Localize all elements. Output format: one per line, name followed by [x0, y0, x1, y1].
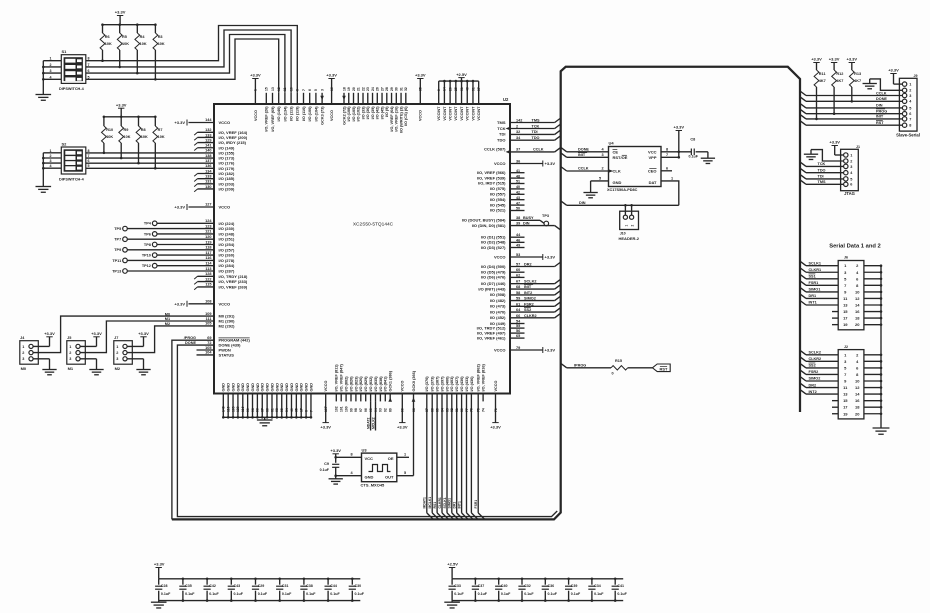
svg-text:7: 7 — [666, 153, 668, 157]
svg-text:+3.3V: +3.3V — [811, 57, 822, 62]
FPGA right pin 79 VCCO +3.3V — [510, 349, 543, 351]
svg-text:R9: R9 — [124, 128, 129, 132]
svg-text:GND: GND — [309, 383, 313, 392]
svg-text:TP6: TP6 — [144, 232, 151, 236]
svg-text:DIPSWITCH-4: DIPSWITCH-4 — [59, 87, 85, 91]
svg-text:5: 5 — [599, 176, 601, 180]
svg-text:5: 5 — [88, 164, 90, 168]
svg-text:TCK: TCK — [532, 124, 540, 128]
svg-text:VCCO: VCCO — [494, 255, 506, 260]
svg-text:SCLK1: SCLK1 — [443, 497, 447, 508]
svg-text:VCCINT: VCCINT — [437, 106, 441, 121]
svg-text:C35: C35 — [185, 584, 192, 588]
svg-text:53: 53 — [516, 253, 520, 257]
svg-text:32: 32 — [516, 130, 520, 134]
svg-text:TP11: TP11 — [112, 259, 121, 263]
pull-up rail +3.3V for S2 resistors — [104, 116, 155, 118]
svg-text:6: 6 — [666, 166, 668, 170]
svg-text:DR1: DR1 — [453, 502, 457, 509]
svg-text:+3.3V: +3.3V — [154, 562, 165, 567]
svg-text:16: 16 — [330, 87, 334, 91]
svg-text:I/O (802): I/O (802) — [345, 376, 349, 392]
PROM U4 XC17S50A-PD8C body — [609, 147, 662, 187]
svg-text:R11: R11 — [819, 72, 826, 76]
svg-text:50: 50 — [516, 207, 520, 211]
svg-text:CLKR1: CLKR1 — [438, 497, 442, 508]
svg-text:1: 1 — [50, 57, 52, 61]
svg-text:76: 76 — [470, 408, 474, 412]
svg-text:21: 21 — [357, 87, 361, 91]
FPGA right pin 37 CCLK to bus — [510, 151, 555, 153]
svg-text:3: 3 — [22, 357, 24, 361]
svg-text:89: 89 — [389, 408, 393, 412]
svg-text:CEO: CEO — [648, 168, 657, 173]
svg-text:0.1uF: 0.1uF — [478, 592, 488, 596]
svg-text:I/O (554): I/O (554) — [490, 197, 506, 202]
svg-text:133: 133 — [205, 174, 211, 178]
svg-text:I/O (427): I/O (427) — [455, 376, 459, 392]
svg-text:116: 116 — [241, 406, 245, 412]
svg-text:TCK: TCK — [497, 126, 505, 131]
svg-text:+3.3V: +3.3V — [674, 125, 685, 130]
svg-text:83: 83 — [445, 408, 449, 412]
svg-text:61: 61 — [516, 302, 520, 306]
svg-text:130: 130 — [205, 185, 211, 189]
svg-text:43: 43 — [516, 196, 520, 200]
svg-text:FSR1: FSR1 — [474, 500, 478, 509]
svg-text:49: 49 — [290, 408, 294, 412]
svg-text:+3.3V: +3.3V — [138, 331, 149, 336]
FPGA left pin 144 VCCO with +3.3V — [189, 122, 215, 124]
svg-text:GND: GND — [261, 383, 265, 392]
FPGA right no-connect stubs 44 46 49 — [510, 236, 525, 238]
svg-text:DIN: DIN — [876, 104, 883, 108]
svg-text:I/O (45): I/O (45) — [380, 106, 384, 120]
ground to Slave-Serial pin2 — [870, 79, 903, 90]
svg-text:69: 69 — [207, 336, 211, 340]
svg-text:I/O (102): I/O (102) — [357, 106, 361, 122]
FPGA right pins TMS TCK TDI TDO to bus — [510, 122, 555, 124]
+3.3V to J4 pin1 — [33, 345, 49, 347]
J6 unconnected left stubs — [832, 311, 838, 313]
svg-text:98: 98 — [354, 408, 358, 412]
svg-text:I/O (387): I/O (387) — [436, 376, 440, 392]
svg-text:SIMO2: SIMO2 — [524, 297, 536, 301]
svg-text:2: 2 — [116, 351, 118, 355]
capacitor C32 0.1uF — [521, 579, 523, 585]
svg-text:60: 60 — [516, 268, 520, 272]
DIP switch S2 DIPSWITCH-4 — [61, 147, 86, 174]
svg-text:U2: U2 — [503, 97, 509, 102]
svg-text:144: 144 — [205, 118, 212, 122]
svg-text:TDI: TDI — [532, 130, 538, 134]
svg-text:4: 4 — [50, 164, 52, 168]
decoupling bank rail +3.3V — [159, 578, 361, 580]
svg-text:TP10: TP10 — [142, 254, 151, 258]
svg-text:MCLK2: MCLK2 — [372, 417, 376, 429]
svg-text:22: 22 — [361, 87, 365, 91]
svg-text:12: 12 — [855, 385, 860, 390]
svg-text:I/O (INIT) (443): I/O (INIT) (443) — [478, 286, 506, 291]
svg-text:39: 39 — [516, 221, 520, 225]
ground for J5 pin3 — [80, 358, 96, 360]
connector J9 Slave-Serial — [899, 78, 917, 131]
svg-text:2: 2 — [69, 351, 71, 355]
svg-text:JTAG: JTAG — [844, 191, 855, 196]
input arrow on GCK2 pin — [342, 96, 346, 100]
svg-text:67: 67 — [516, 280, 520, 284]
svg-text:6: 6 — [909, 112, 911, 116]
svg-text:1: 1 — [404, 453, 406, 457]
svg-text:C40: C40 — [501, 584, 508, 588]
FPGA left pins group1 I/O with stubs — [198, 131, 215, 133]
svg-text:DONE: DONE — [578, 147, 589, 151]
capacitor C33 0.1uF — [451, 579, 453, 585]
svg-text:C33: C33 — [454, 584, 461, 588]
svg-text:1: 1 — [909, 83, 911, 87]
net flag RST — [652, 364, 670, 372]
svg-text:TP5: TP5 — [114, 227, 121, 231]
svg-text:CLKR2: CLKR2 — [809, 357, 822, 361]
svg-text:120: 120 — [236, 406, 240, 412]
svg-text:6: 6 — [850, 183, 852, 187]
svg-text:J2: J2 — [844, 345, 848, 349]
resistor R10 10K — [103, 117, 105, 126]
svg-text:20: 20 — [855, 322, 860, 327]
svg-text:55: 55 — [516, 324, 520, 328]
svg-text:+2.5V: +2.5V — [456, 72, 467, 77]
resistor R8 10K — [138, 117, 140, 126]
FPGA right pin 36 VCCO +3.3V — [510, 163, 543, 165]
svg-text:6: 6 — [88, 159, 90, 163]
svg-text:+3.3V: +3.3V — [545, 348, 556, 353]
+3.3V to JTAG pin1 — [835, 154, 844, 156]
wires from bus to JTAG TCK TDO TDI TMS — [800, 162, 806, 167]
wire DONE from pin 72 down to bottom bus — [177, 345, 557, 516]
svg-text:GCK2 (72): GCK2 (72) — [342, 106, 346, 125]
capacitor C8 0.1uF — [690, 149, 692, 156]
svg-text:51: 51 — [516, 180, 520, 184]
svg-text:I/O (CS) (6): I/O (CS) (6) — [404, 106, 408, 126]
FPGA right pin 39 DIN to bus — [510, 225, 555, 227]
+3.3V to J7 pin1 — [127, 345, 143, 347]
FPGA bottom pin 90 VCCO +3.3V — [401, 394, 403, 423]
svg-text:85: 85 — [435, 408, 439, 412]
connector J1 JTAG — [841, 149, 859, 190]
svg-text:J6: J6 — [844, 256, 848, 260]
svg-text:31: 31 — [399, 87, 403, 91]
svg-text:109: 109 — [205, 312, 211, 316]
svg-text:132: 132 — [205, 128, 211, 132]
svg-text:I/O (370): I/O (370) — [425, 376, 429, 392]
resistor R4 10K — [136, 25, 138, 33]
svg-text:I/O (33): I/O (33) — [361, 106, 365, 120]
svg-text:30: 30 — [395, 87, 399, 91]
svg-text:VCCO: VCCO — [254, 110, 258, 121]
svg-text:4: 4 — [50, 75, 52, 79]
jumper J5 3-pin header — [67, 341, 86, 365]
test points TP4-TP13 — [152, 221, 157, 226]
svg-text:R13: R13 — [854, 72, 861, 76]
svg-text:I/O (820): I/O (820) — [349, 376, 353, 392]
svg-text:I/O, VREF (461): I/O, VREF (461) — [477, 335, 506, 340]
svg-text:79: 79 — [516, 346, 520, 350]
svg-text:28: 28 — [385, 87, 389, 91]
svg-text:13: 13 — [843, 392, 848, 397]
svg-text:I/O (230): I/O (230) — [219, 226, 235, 231]
U3 VCC pin8 wire to +3.3V — [336, 456, 362, 458]
wires from bus to Slave-Serial CCLK DONE DIN /PROG /INIT /RST — [800, 91, 806, 96]
svg-text:FSR2: FSR2 — [809, 370, 819, 374]
svg-text:86: 86 — [265, 408, 269, 412]
svg-text:VCCO: VCCO — [324, 380, 328, 391]
svg-text:40: 40 — [516, 185, 520, 189]
svg-text:14: 14 — [443, 87, 447, 91]
svg-text:111: 111 — [206, 317, 212, 321]
svg-text:25: 25 — [454, 87, 458, 91]
svg-text:C9: C9 — [324, 462, 329, 466]
svg-text:TDI: TDI — [818, 175, 824, 179]
svg-text:8: 8 — [304, 410, 308, 412]
svg-text:HEADER-2: HEADER-2 — [619, 236, 640, 241]
svg-text:FSR1: FSR1 — [809, 281, 819, 285]
svg-text:DR1: DR1 — [809, 294, 817, 298]
svg-text:J7: J7 — [114, 336, 118, 340]
S1 common ground — [42, 61, 44, 95]
svg-text:C42: C42 — [209, 584, 216, 588]
svg-text:117: 117 — [205, 251, 211, 255]
J2 unconnected left stubs — [832, 400, 838, 402]
capacitor C38 0.1uF — [303, 579, 305, 585]
svg-text:+3.3V: +3.3V — [174, 205, 185, 210]
svg-text:0.1uF: 0.1uF — [524, 592, 534, 596]
svg-text:TMS: TMS — [497, 120, 506, 125]
U3 OE pin1 stub — [397, 456, 409, 458]
svg-text:GCK0 (366): GCK0 (366) — [412, 370, 416, 391]
svg-text:14: 14 — [855, 303, 860, 308]
svg-text:I/O (400): I/O (400) — [445, 376, 449, 392]
svg-text:I/O (397): I/O (397) — [440, 376, 444, 392]
svg-text:I/O (119): I/O (119) — [296, 106, 300, 122]
svg-text:109: 109 — [231, 406, 235, 412]
capacitor C35 0.1uF — [182, 579, 184, 585]
svg-text:U3: U3 — [362, 447, 368, 452]
svg-text:86: 86 — [431, 408, 435, 412]
svg-text:TDO: TDO — [532, 136, 540, 140]
svg-text:10K: 10K — [140, 42, 147, 46]
wires from bus to J2 signals — [800, 350, 806, 355]
FPGA top pins group1 — [265, 93, 267, 104]
FPGA right pin 38 BUSY to TP5 — [510, 219, 540, 221]
svg-text:101: 101 — [340, 406, 344, 412]
wires MDAT2 MCLK2 from bottom pins — [370, 401, 372, 430]
svg-text:47: 47 — [516, 201, 520, 205]
svg-text:I/O, VREF (69): I/O, VREF (69) — [271, 106, 275, 132]
svg-text:3: 3 — [69, 357, 71, 361]
svg-text:116: 116 — [205, 256, 211, 260]
svg-text:M2: M2 — [115, 366, 121, 371]
svg-text:C38: C38 — [306, 584, 313, 588]
svg-text:SIMO1: SIMO1 — [448, 498, 452, 509]
svg-text:J5: J5 — [67, 336, 71, 340]
FPGA bottom pins group VREF/IO/GCK1 — [335, 394, 337, 402]
svg-text:4K7: 4K7 — [836, 79, 843, 83]
svg-text:RST: RST — [660, 366, 669, 371]
svg-text:99: 99 — [349, 408, 353, 412]
svg-text:0.1uF: 0.1uF — [617, 592, 627, 596]
FPGA bottom pins VREF 862/816 and VCCO 71 — [477, 394, 479, 513]
J6 right pins to ground bus — [864, 265, 881, 267]
capacitor C31 0.1uF — [279, 579, 281, 585]
oscillator U3 CTS_MXO45 — [362, 453, 397, 482]
svg-text:57: 57 — [477, 87, 481, 91]
svg-text:INT1: INT1 — [457, 501, 461, 508]
svg-text:1: 1 — [254, 89, 258, 91]
svg-text:I/O (DOUT, BUSY) (584): I/O (DOUT, BUSY) (584) — [462, 218, 506, 223]
svg-text:3: 3 — [909, 94, 911, 98]
svg-text:I/O (140): I/O (140) — [277, 106, 281, 122]
ground bus for J6 J2 — [880, 266, 882, 428]
svg-text:I/O (DIN, D0) (581): I/O (DIN, D0) (581) — [472, 223, 506, 228]
svg-text:10K: 10K — [106, 135, 113, 139]
svg-text:4K7: 4K7 — [819, 79, 826, 83]
svg-text:I/O, VREF (566): I/O, VREF (566) — [477, 170, 506, 175]
svg-text:134: 134 — [205, 169, 212, 173]
svg-text:DR2: DR2 — [809, 383, 817, 387]
svg-text:18: 18 — [342, 87, 346, 91]
FPGA top VCCINT pins with +2.5V rail — [439, 80, 479, 82]
wires from S1 to FPGA top pins staircase — [86, 26, 297, 93]
svg-text:I/O (470): I/O (470) — [490, 309, 506, 314]
svg-text:INIT: INIT — [578, 153, 586, 157]
FPGA top pins group2 — [343, 93, 345, 104]
svg-text:VCCINT: VCCINT — [454, 106, 458, 121]
svg-text:55: 55 — [280, 408, 284, 412]
svg-text:0.1uF: 0.1uF — [454, 592, 464, 596]
svg-text:R8: R8 — [141, 128, 146, 132]
svg-text:+3.3V: +3.3V — [174, 301, 185, 306]
svg-text:0.1uF: 0.1uF — [258, 592, 268, 596]
svg-text:C31: C31 — [282, 584, 289, 588]
svg-text:I/O (557): I/O (557) — [490, 192, 506, 197]
svg-text:75: 75 — [477, 408, 481, 412]
capacitor C37 0.1uF — [474, 579, 476, 585]
svg-text:I/O (545): I/O (545) — [490, 202, 506, 207]
svg-text:I/O (257): I/O (257) — [219, 247, 235, 252]
svg-text:51: 51 — [471, 87, 475, 91]
svg-text:13: 13 — [271, 87, 275, 91]
svg-text:7: 7 — [88, 154, 90, 158]
svg-text:0: 0 — [612, 372, 614, 376]
svg-text:I/O (42): I/O (42) — [376, 106, 380, 120]
svg-text:TMS: TMS — [818, 180, 826, 184]
svg-text:68: 68 — [275, 408, 279, 412]
svg-text:68: 68 — [516, 285, 520, 289]
+3.3V to J5 pin1 — [80, 345, 96, 347]
svg-text:32: 32 — [404, 87, 408, 91]
svg-text:113: 113 — [205, 267, 211, 271]
svg-text:19: 19 — [843, 411, 848, 416]
svg-text:+3.3V: +3.3V — [545, 255, 556, 260]
svg-text:I/O, VREF (16): I/O, VREF (16) — [395, 106, 399, 132]
svg-text:I/O (832): I/O (832) — [369, 376, 373, 392]
svg-text:92: 92 — [384, 408, 388, 412]
svg-text:I/O (835): I/O (835) — [374, 376, 378, 392]
svg-text:VCCO: VCCO — [330, 110, 334, 121]
svg-text:54: 54 — [285, 408, 289, 412]
svg-text:98: 98 — [251, 408, 255, 412]
wire /PROG from pin 69 down to bottom bus — [172, 340, 214, 519]
svg-text:DAT: DAT — [649, 180, 657, 185]
svg-text:15: 15 — [843, 398, 848, 403]
svg-text:GND: GND — [285, 383, 289, 392]
svg-text:71: 71 — [494, 408, 498, 412]
svg-text:13: 13 — [843, 303, 848, 308]
svg-text:CCLK (587): CCLK (587) — [484, 147, 506, 152]
svg-text:PROG: PROG — [876, 110, 887, 114]
svg-text:2: 2 — [50, 63, 52, 67]
svg-text:I/O (278): I/O (278) — [219, 258, 235, 263]
svg-text:2: 2 — [850, 159, 852, 163]
svg-text:10K: 10K — [141, 135, 148, 139]
svg-text:72: 72 — [207, 341, 211, 345]
svg-text:88: 88 — [412, 408, 416, 412]
FPGA top pin 1 VCCO with +3.3V — [254, 79, 256, 105]
svg-text:120: 120 — [205, 235, 211, 239]
svg-text:CTS_MXO45: CTS_MXO45 — [361, 483, 386, 488]
svg-text:I/O (826): I/O (826) — [359, 376, 363, 392]
capacitor C41 0.1uF — [614, 579, 616, 585]
ground for J7 pin3 — [127, 358, 143, 360]
svg-text:17: 17 — [843, 316, 848, 321]
svg-text:15: 15 — [843, 309, 848, 314]
svg-text:26: 26 — [376, 87, 380, 91]
svg-text:105: 105 — [205, 346, 211, 350]
svg-text:C32: C32 — [524, 584, 531, 588]
svg-text:TP9: TP9 — [114, 248, 121, 252]
U4 VCC pin8 VPP pin7 to +3.3V — [661, 151, 691, 153]
svg-text:GND: GND — [365, 475, 374, 480]
svg-text:CLKR2: CLKR2 — [524, 314, 537, 318]
svg-text:C41: C41 — [617, 584, 624, 588]
svg-text:VCCINT: VCCINT — [443, 106, 447, 121]
svg-text:136: 136 — [205, 164, 211, 168]
svg-text:0.1uF: 0.1uF — [330, 592, 340, 596]
svg-text:23: 23 — [366, 87, 370, 91]
svg-text:+3.3V: +3.3V — [397, 424, 408, 429]
FPGA top pin 35 VCCO with +3.3V — [419, 79, 421, 105]
svg-text:VCCO: VCCO — [219, 301, 231, 306]
svg-text:TP7: TP7 — [114, 238, 121, 242]
svg-text:CLKR1: CLKR1 — [809, 268, 822, 272]
svg-text:I/O (224): I/O (224) — [219, 221, 235, 226]
svg-text:84: 84 — [440, 408, 444, 412]
svg-text:81: 81 — [455, 408, 459, 412]
svg-text:+3.3V: +3.3V — [829, 140, 840, 145]
svg-text:S1: S1 — [62, 49, 68, 54]
svg-text:49: 49 — [516, 244, 520, 248]
svg-text:SIMO1: SIMO1 — [809, 288, 821, 292]
svg-text:RS1: RS1 — [433, 502, 437, 509]
svg-text:SS1: SS1 — [809, 275, 816, 279]
svg-text:I/O (373): I/O (373) — [431, 376, 435, 392]
svg-text:CCLK: CCLK — [876, 91, 887, 95]
svg-text:+3.3V: +3.3V — [888, 68, 899, 73]
svg-text:8: 8 — [666, 147, 668, 151]
svg-text:0.1uF: 0.1uF — [594, 592, 604, 596]
svg-text:+3.3V: +3.3V — [115, 10, 126, 15]
svg-text:31: 31 — [460, 87, 464, 91]
